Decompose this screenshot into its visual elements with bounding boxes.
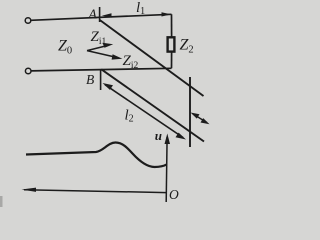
background paper xyxy=(0,0,214,207)
wire load lead upper (top line to Z2 box) xyxy=(171,14,173,37)
svg-text:O: O xyxy=(169,187,179,202)
svg-text:u: u xyxy=(155,128,162,143)
terminal circle top-left xyxy=(25,18,31,24)
wire stub conductor D2 from node B (lower wire of l2 stub) xyxy=(101,69,204,141)
wire top conductor from terminal to load lead (carries l1 dimension) xyxy=(31,14,172,20)
dimension arrowhead left (l1, points left to A) xyxy=(102,13,112,17)
waveform u(t) curve xyxy=(26,143,166,168)
scan smudge bottom-left edge xyxy=(0,196,3,207)
dimension arrowhead right (l1, points right to load) xyxy=(162,12,172,16)
arrow Zi1 (input impedance looking right at A-B) xyxy=(87,43,113,51)
node B tick xyxy=(100,69,102,90)
wire stub conductor D1 from node A (upper wire of l2 stub) xyxy=(100,20,204,96)
axis t (horizontal) with left arrowhead xyxy=(22,188,167,193)
small double arrow beyond short bar xyxy=(191,113,210,125)
axis u (vertical) with arrowhead xyxy=(165,134,171,203)
node A tick xyxy=(99,7,101,22)
arrow Zi2 (input impedance looking into stub) xyxy=(87,51,122,60)
terminal circle bottom-left xyxy=(25,68,31,74)
wire load lead lower (Z2 box to bottom line) xyxy=(171,52,173,69)
short-circuit bar at stub end xyxy=(189,77,191,147)
svg-text:B: B xyxy=(86,72,94,87)
wire bottom conductor from terminal to load lead xyxy=(31,68,172,71)
resistor Z2 box xyxy=(168,37,175,51)
double arrow along stub (wave path, length l2) xyxy=(103,83,187,140)
svg-text:A: A xyxy=(88,7,98,22)
